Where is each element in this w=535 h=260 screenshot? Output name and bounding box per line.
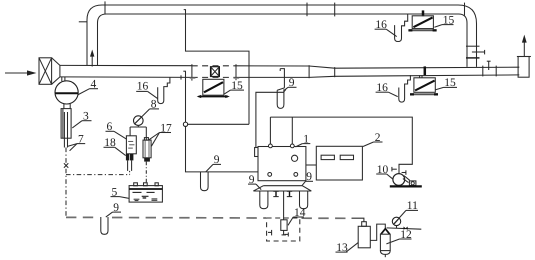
needle valve (bowtie) [404, 227, 408, 230]
top duct [102, 5, 459, 14]
sample tube 9 (bottom left) [101, 217, 108, 234]
damper 15 (under main duct, right) [410, 66, 438, 95]
label 12 [386, 229, 412, 244]
outlet box [518, 57, 529, 78]
sampling tube 3 [61, 104, 71, 148]
pump inlet fittings [392, 167, 406, 175]
drain valve 14 [281, 220, 287, 235]
riser duct to top duct [87, 5, 107, 65]
label 11 [393, 200, 418, 224]
label 3 [72, 111, 91, 128]
wire node down to analyzer [186, 127, 259, 172]
dash-dot line to flowmeter [66, 174, 130, 176]
duct flange pair near outlet [483, 66, 496, 77]
label 15 (top duct damper) [434, 14, 454, 27]
flow gauge 11 [392, 217, 400, 228]
top duct right elbow down [458, 5, 477, 67]
sampling probe 16 (under main duct, right) [399, 75, 411, 102]
flowmeter 6 [126, 136, 136, 154]
tray leg tube 9 (right) [300, 191, 308, 209]
riser flow arrow [90, 50, 94, 67]
duct flange right of damper [234, 64, 240, 80]
label 9 (right tray leg) [302, 171, 313, 186]
label 9 (duct temperature probe) [285, 77, 297, 90]
damper 15 (on top duct) [408, 10, 436, 31]
fan outlet transition [52, 58, 60, 85]
leader needle through gauge 11 [394, 219, 398, 224]
label 15 (right damper) [435, 77, 457, 90]
battery 5 [129, 183, 162, 202]
label 17 [149, 122, 172, 146]
sample tube 9 (on wire, x=204) [201, 172, 209, 191]
main supply duct [60, 65, 519, 77]
sensor probe in main duct (wire to node) [181, 71, 186, 122]
wire box1 to box2 [306, 164, 316, 166]
top duct flange tick near right elbow [464, 3, 466, 16]
box1 terminal pins [269, 144, 295, 148]
label 8 [134, 99, 159, 125]
outlet arrow [522, 35, 527, 57]
node junction circle [183, 122, 187, 126]
label 16 (top right probe) [375, 19, 397, 37]
label 13 [336, 242, 359, 254]
top duct flange tick near left elbow [104, 1, 106, 14]
duct flange left of damper [190, 64, 196, 80]
pipe to dryer 13 [352, 218, 364, 222]
label 2 [363, 132, 383, 147]
controller box 2 [316, 146, 362, 180]
label 6 [106, 121, 127, 139]
label 18 [104, 137, 126, 156]
duct probe port (small T) [487, 61, 491, 70]
top duct flex connector ticks [307, 3, 335, 17]
label 16 (bottom right probe) [376, 82, 398, 97]
label 15 (middle damper) [224, 80, 244, 94]
tray nozzle fittings [273, 191, 292, 196]
fan F (inlet air handling unit with X symbol) [39, 58, 52, 85]
temperature probe 9 (under main duct) [277, 69, 284, 109]
label 14 [288, 207, 306, 226]
inlet arrow [5, 70, 37, 75]
collection tray under box 1 [253, 186, 311, 191]
probe 9 wire to analyzer tab [256, 89, 286, 147]
duct reducer flange x=309 [308, 65, 310, 78]
outlet line with valve [387, 228, 422, 229]
label 7 [68, 133, 85, 150]
sampler sphere 4 [55, 77, 78, 104]
leader needle through gauge 8 [135, 117, 141, 123]
sampling probe 16 (under top duct, right) [395, 14, 408, 42]
harness wires from pins [270, 117, 412, 174]
right drop duct flanges [466, 46, 485, 58]
tray leg tube 9 (left) [260, 191, 268, 209]
sampling probe 16 (under main duct) [158, 77, 170, 103]
vacuum pump 10 [390, 174, 422, 187]
label 9 (tube on wire) [206, 154, 221, 172]
coupling 18 [126, 154, 133, 175]
filter 17 [143, 138, 151, 183]
label 4 [78, 79, 98, 95]
label 9 (bottom left tube) [106, 202, 121, 217]
bottom long dashed sampling line [66, 216, 352, 219]
riser flange tick [79, 21, 88, 23]
duct damper box with X (in main duct) [211, 67, 220, 77]
duct reducer flange x=335 [334, 67, 336, 77]
drain wire to valve 14 [283, 191, 285, 220]
pressure gauge 8 [130, 116, 146, 140]
fittings beside valve 14 [268, 230, 288, 237]
label 9 (left tray leg) [248, 174, 261, 190]
sensor wire from top duct down [184, 10, 249, 125]
dashed enclosure around 14 [267, 218, 300, 241]
capillary line 7 (dash-dot down) [64, 148, 68, 216]
dryer 13 [358, 222, 370, 248]
filter 12 [380, 229, 390, 258]
label 5 [111, 186, 130, 198]
damper 15 (under main duct, middle) [197, 79, 230, 98]
svg-text:16: 16 [137, 81, 149, 93]
label 1 [296, 133, 311, 147]
analyzer box 1 [255, 147, 306, 181]
label 10 [376, 164, 393, 179]
pipe 13 to filter 12 [370, 224, 385, 240]
label 16 (left probe) [136, 81, 157, 99]
wire node to right riser [188, 123, 249, 125]
